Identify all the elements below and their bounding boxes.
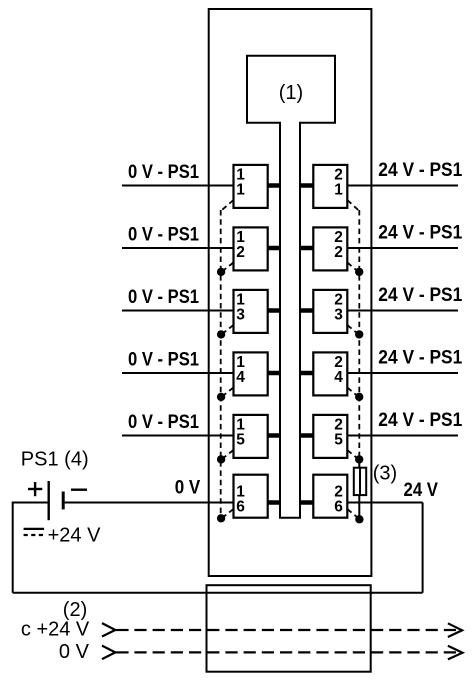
module outline	[209, 9, 372, 576]
svg-text:24 V: 24 V	[404, 480, 439, 501]
dashed stub terminal 1/4 to left bus	[221, 388, 234, 398]
stub bus to terminal 2/2	[300, 246, 313, 251]
junction dot right row 4	[355, 393, 363, 401]
DC symbol	[24, 529, 44, 535]
row 6 wire 0 V from supply	[63, 502, 233, 504]
svg-text:0 V - PS1: 0 V - PS1	[128, 162, 199, 183]
stub terminal 1/4 to bus	[268, 371, 280, 376]
svg-text:0 V - PS1: 0 V - PS1	[128, 225, 199, 246]
terminal 2/2	[313, 227, 347, 270]
bottom return wire	[13, 592, 423, 594]
junction dot right row 5	[355, 455, 363, 463]
svg-text:24 V - PS1: 24 V - PS1	[378, 410, 462, 431]
fuse F1	[354, 468, 366, 495]
stub terminal 1/6 to bus	[268, 500, 280, 505]
label 24 V - PS1 row 1	[378, 160, 462, 181]
svg-text:6: 6	[334, 499, 343, 516]
svg-text:(1): (1)	[279, 82, 303, 104]
terminal 2/3	[313, 290, 347, 333]
svg-text:4: 4	[334, 369, 343, 386]
junction dot left row 3	[217, 330, 225, 338]
label (2)	[63, 599, 87, 621]
label +24 V	[48, 525, 101, 547]
svg-text:0 V: 0 V	[175, 478, 201, 499]
dashed stub terminal 1/3 to left bus	[221, 325, 234, 335]
terminal 1/5	[234, 415, 268, 458]
terminal 1/6	[234, 475, 268, 518]
terminal 1/4	[234, 352, 268, 395]
stub terminal 1/5 to bus	[268, 433, 280, 438]
row 1 right wire	[347, 185, 458, 187]
terminal 1/3	[234, 290, 268, 333]
fuse lower lead	[358, 495, 360, 518]
stub terminal 1/3 to bus	[268, 308, 280, 313]
left dashed equipotential bus	[220, 210, 222, 518]
svg-text:5: 5	[236, 432, 245, 449]
junction dot right row 6	[355, 515, 363, 523]
chevron c +24 V	[102, 623, 129, 636]
row 5 right wire	[347, 435, 458, 437]
label 24 V - PS1 row 2	[378, 223, 462, 244]
row 2 right wire	[347, 247, 458, 249]
stub bus to terminal 2/4	[300, 371, 313, 376]
svg-text:3: 3	[334, 307, 343, 324]
label (3)	[373, 463, 397, 485]
svg-text:+24 V: +24 V	[48, 525, 101, 547]
svg-text:24 V - PS1: 24 V - PS1	[378, 348, 462, 369]
dashed stub terminal 1/2 to left bus	[221, 263, 234, 273]
plus sign	[28, 482, 42, 496]
svg-text:0 V: 0 V	[59, 641, 90, 663]
battery PS1 negative plate	[62, 492, 65, 510]
label c +24 V	[21, 619, 90, 641]
row 5 left wire	[122, 435, 234, 437]
terminal 2/5	[313, 415, 347, 458]
stub bus to terminal 2/1	[300, 183, 313, 188]
svg-text:0 V - PS1: 0 V - PS1	[128, 287, 199, 308]
dashed stub terminal 2/5 to right bus	[347, 450, 359, 460]
label 0 V - PS1 row 2	[128, 225, 199, 246]
label 24 V - PS1 row 3	[378, 285, 462, 306]
junction dot left row 4	[217, 393, 225, 401]
svg-text:(3): (3)	[373, 463, 397, 485]
dashed net c +24 V	[134, 629, 456, 631]
battery PS1 positive plate	[48, 481, 50, 520]
junction dot left row 5	[217, 455, 225, 463]
svg-text:c +24 V: c +24 V	[21, 619, 90, 641]
label 0 V - PS1 row 5	[128, 412, 199, 433]
internal electronics block (1) with center bus stem	[247, 56, 335, 518]
stub bus to terminal 2/5	[300, 433, 313, 438]
svg-text:2: 2	[334, 244, 343, 261]
row 1 left wire	[122, 185, 234, 187]
dashed stub terminal 1/5 to left bus	[221, 450, 234, 460]
label 24 V - PS1 row 4	[378, 348, 462, 369]
svg-text:2: 2	[236, 244, 245, 261]
junction dot left row 2	[217, 268, 225, 276]
terminal 2/4	[313, 352, 347, 395]
label 0 V - PS1 row 4	[128, 350, 199, 371]
svg-text:6: 6	[236, 499, 245, 516]
row 4 right wire	[347, 372, 458, 374]
label 24 V - PS1 row 5	[378, 410, 462, 431]
dashed stub terminal 1/1 to left bus	[221, 200, 234, 211]
dashed net 0 V	[134, 651, 456, 653]
terminal 2/6	[313, 475, 347, 518]
junction dot right row 3	[355, 330, 363, 338]
junction dot right row 2	[355, 268, 363, 276]
junction dot left row 6	[217, 514, 225, 522]
left riser wire	[12, 502, 14, 593]
terminal 1/1	[234, 165, 268, 208]
row 2 left wire	[122, 247, 234, 249]
dashed stub terminal 2/3 to right bus	[347, 325, 359, 335]
label 24 V	[404, 480, 439, 501]
svg-text:24 V - PS1: 24 V - PS1	[378, 160, 462, 181]
label 0 V - PS1 row 1	[128, 162, 199, 183]
dashed stub terminal 1/6 to left bus	[221, 509, 234, 519]
svg-text:1: 1	[334, 182, 343, 199]
svg-text:0 V - PS1: 0 V - PS1	[128, 412, 199, 433]
fuse (3) upper lead	[358, 459, 360, 467]
minus sign	[71, 489, 87, 491]
svg-text:3: 3	[236, 307, 245, 324]
stub bus to terminal 2/3	[300, 308, 313, 313]
right riser wire to 24 V	[422, 503, 424, 593]
label 0 V	[175, 478, 201, 499]
stub bus to terminal 2/6	[300, 500, 313, 505]
arrowhead c +24 V	[448, 623, 462, 637]
svg-text:4: 4	[236, 369, 245, 386]
svg-text:PS1 (4): PS1 (4)	[21, 449, 89, 471]
label 0 V - PS1 row 3	[128, 287, 199, 308]
backplane bus connector box	[207, 585, 371, 672]
row 4 left wire	[122, 372, 234, 374]
terminal 2/1	[313, 165, 347, 208]
stub terminal 1/1 to bus	[268, 183, 280, 188]
dashed stub terminal 2/6 to right bus	[347, 509, 359, 519]
dashed stub terminal 2/4 to right bus	[347, 388, 359, 398]
wire battery positive to left riser	[13, 502, 49, 504]
label PS1 (4)	[21, 449, 89, 471]
chevron 0 V	[102, 646, 129, 660]
svg-text:1: 1	[236, 182, 245, 199]
svg-text:5: 5	[334, 432, 343, 449]
right dashed equipotential bus	[358, 210, 360, 459]
svg-text:24 V - PS1: 24 V - PS1	[378, 285, 462, 306]
stub terminal 1/2 to bus	[268, 246, 280, 251]
dashed stub terminal 2/2 to right bus	[347, 263, 359, 273]
row 6 right wire 24 V	[347, 502, 422, 504]
svg-text:24 V - PS1: 24 V - PS1	[378, 223, 462, 244]
dashed stub terminal 2/1 to right bus	[347, 200, 359, 211]
arrowhead 0 V	[448, 646, 463, 660]
row 3 left wire	[122, 310, 234, 312]
svg-text:0 V - PS1: 0 V - PS1	[128, 350, 199, 371]
terminal 1/2	[234, 227, 268, 270]
label 0 V backplane	[59, 641, 90, 663]
row 3 right wire	[347, 310, 458, 312]
